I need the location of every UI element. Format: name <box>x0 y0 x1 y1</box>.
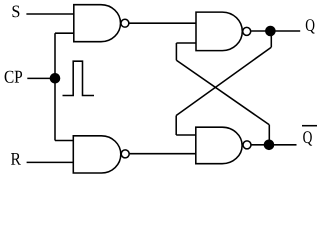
wire Qbar feedback diagonal <box>176 60 269 125</box>
wire Qbar feedback vertical upper <box>175 43 177 60</box>
nand gate U4 body <box>196 127 242 164</box>
nand gate U2 body <box>73 136 120 173</box>
wire U1 output to U3 <box>129 22 196 24</box>
Qbar overline <box>302 125 317 127</box>
clock pulse symbol <box>63 61 95 95</box>
nand gate U2 bubble <box>121 150 129 158</box>
wire Q feedback to U4 input <box>176 134 196 136</box>
wire CP input <box>27 77 55 79</box>
node Qbar junction <box>264 140 274 150</box>
label Q <box>306 19 315 33</box>
node Q junction <box>266 26 276 36</box>
wire S input <box>26 13 73 15</box>
nand gate U3 body <box>196 12 242 51</box>
wire CP to gate U1 <box>55 32 74 34</box>
wire Qbar feedback to U3 input <box>176 42 196 44</box>
wire CP to gate U2 <box>55 140 73 142</box>
wire U4 output to Qbar <box>251 144 297 146</box>
wire R input <box>27 161 74 163</box>
wire Q feedback vertical <box>270 31 272 47</box>
wire U3 output to Q <box>251 30 300 32</box>
wire CP vertical bus <box>54 33 56 140</box>
node CP junction <box>50 74 60 84</box>
label CP <box>5 71 23 83</box>
nand gate U3 bubble <box>243 27 251 35</box>
nand gate U1 bubble <box>121 19 129 27</box>
label R <box>11 153 21 165</box>
wire Qbar feedback vertical <box>268 125 270 145</box>
nand gate U1 body <box>74 5 121 42</box>
label Qbar <box>303 131 312 145</box>
wire U2 output to U4 <box>130 153 196 155</box>
nand gate U4 bubble <box>243 141 251 149</box>
label S <box>13 6 20 18</box>
wire Q feedback diagonal <box>176 47 271 115</box>
wire Q feedback vertical lower <box>175 116 177 136</box>
